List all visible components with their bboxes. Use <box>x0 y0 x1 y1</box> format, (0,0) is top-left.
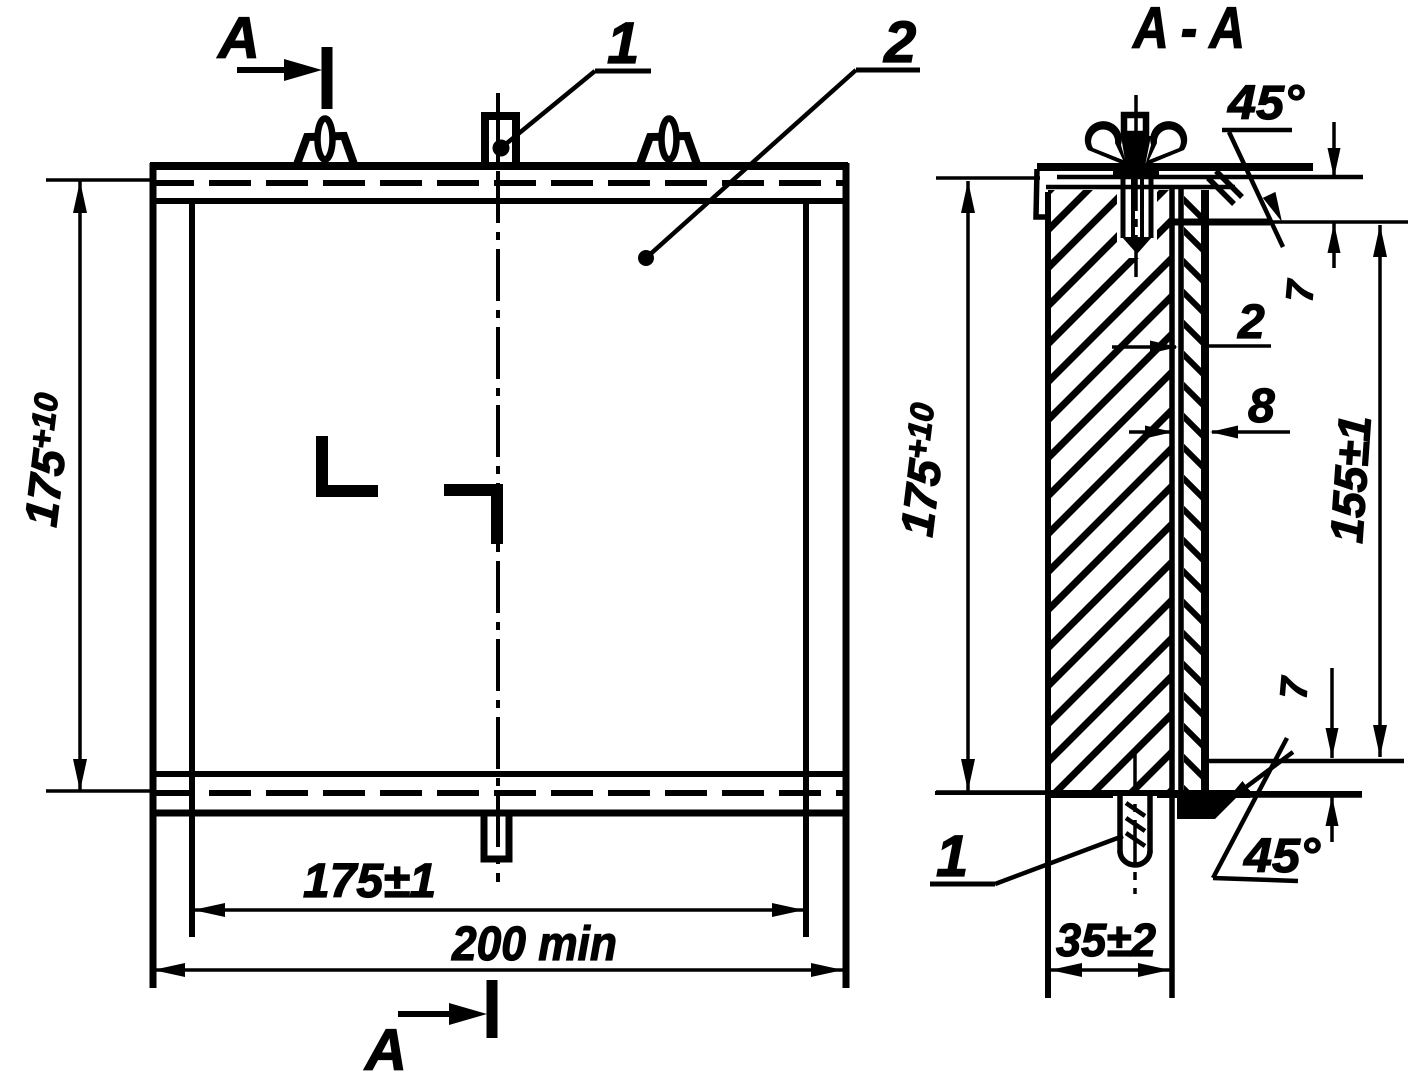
dim 35±2: dimension line with arrows <box>1050 968 1170 972</box>
top rail in section: top face <box>1037 163 1313 171</box>
leader from label 2 to panel <box>646 70 856 258</box>
sheet left edge <box>1178 188 1184 817</box>
washer line under wing nut <box>1113 170 1159 176</box>
dim 175±1: dimension line with arrows <box>193 908 804 912</box>
top rail: second line <box>1057 175 1363 180</box>
top rail: bottom line <box>1046 185 1235 190</box>
svg-text:A: A <box>363 1018 407 1074</box>
clamp bolt (top, section): white halo over hatching <box>1117 190 1157 258</box>
label 1 underline <box>595 69 651 74</box>
svg-text:8: 8 <box>1248 380 1275 433</box>
dim 2: right line <box>1207 344 1271 348</box>
top rail axis (dashed centreline) <box>152 180 846 186</box>
wing nut: right wing <box>1145 121 1187 166</box>
45 deg note (bottom): angle symbol diagonal <box>1213 738 1287 878</box>
svg-text:1: 1 <box>607 11 639 76</box>
wing nut: left wing <box>1085 121 1127 166</box>
dim 7 (bottom): upper part <box>1330 668 1334 758</box>
chamfer face mark (top, double diagonal) <box>1208 178 1234 204</box>
dim 175+10 section: dimension line with arrows <box>966 181 970 791</box>
bolt tip cone <box>1122 237 1152 254</box>
bolt shank edges <box>1121 167 1126 238</box>
masonry wall (45 deg hatching) <box>1030 0 1240 1074</box>
bolt centreline (top) <box>1134 95 1138 277</box>
section plane stroke (top) <box>322 47 333 109</box>
section plane stroke (bottom) <box>487 980 498 1038</box>
svg-text:2: 2 <box>883 10 916 75</box>
svg-text:35±2: 35±2 <box>1056 914 1156 966</box>
weld fill at sheet bottom corner <box>1177 791 1243 819</box>
svg-text:2: 2 <box>1237 296 1265 349</box>
leader from label 1 to bolt <box>501 71 595 148</box>
wall bottom edge / level line <box>935 791 1362 795</box>
bottom level line right of sheet <box>1250 794 1362 798</box>
top rail bottom edge <box>150 198 848 204</box>
asbestos sheet (fine hatched strip) <box>1175 160 1215 851</box>
thread marks <box>1126 803 1145 816</box>
clamp bolt (bottom, section): white halo <box>1113 796 1157 872</box>
vertical centreline (dash-dot) <box>496 93 500 882</box>
frame inner left edge <box>189 201 195 937</box>
svg-text:A - A: A - A <box>1131 0 1245 61</box>
45 deg leader (top) <box>1229 132 1283 247</box>
note underline <box>1222 128 1292 133</box>
rail inner face line (bottom, 155 level) <box>1206 759 1404 764</box>
rounded bottom cap <box>1120 851 1150 865</box>
frame inner right edge <box>803 201 809 937</box>
dim 7 (top): upper part <box>1332 122 1336 178</box>
dim 2: left line with arrow <box>1112 345 1176 349</box>
corner mark left (L shape) <box>322 436 378 491</box>
wall right edge <box>1169 188 1175 998</box>
wing nut: bolt end square <box>1124 115 1146 134</box>
svg-text:1: 1 <box>936 824 968 889</box>
svg-text:45°: 45° <box>1227 77 1305 130</box>
bottom rail bottom edge <box>150 810 848 817</box>
dim 8: left line with arrow <box>1129 430 1171 434</box>
sheet right edge <box>1201 190 1209 812</box>
angle symbol horizontal <box>1213 878 1298 881</box>
dim 175+10 section: extension lines <box>936 176 1040 180</box>
dim 7 (top): lower part <box>1332 223 1336 268</box>
bottom rail axis (dashed centreline) <box>152 790 846 796</box>
label underline <box>930 882 995 887</box>
bottom rail axis extension left <box>46 789 150 793</box>
leader to bottom bolt <box>995 836 1123 884</box>
lifting lug left: eye ring <box>318 119 333 160</box>
corner mark right (mirrored L) <box>444 490 497 544</box>
wing nut: body <box>1121 136 1151 166</box>
clamp bolt (bottom, front view) <box>484 813 509 859</box>
shank edges <box>1117 793 1123 853</box>
dim 155±1: dimension line with arrows <box>1378 225 1382 757</box>
svg-text:45°: 45° <box>1243 830 1321 883</box>
wall left edge <box>1045 192 1051 998</box>
leader dot on panel <box>638 250 654 266</box>
svg-text:155±1: 155±1 <box>1320 414 1381 545</box>
45 deg leader arrow (bottom) <box>1230 752 1293 799</box>
bolt centreline (bottom) <box>1133 752 1137 894</box>
frame outer right edge <box>843 163 850 988</box>
lifting lug right: trapezoid <box>639 136 698 167</box>
lifting lug left: trapezoid <box>296 136 355 167</box>
top rail end lip (left) <box>1036 169 1051 217</box>
clamp bolt 1 (top, front view) <box>485 116 516 166</box>
label 2 underline <box>856 68 920 73</box>
dim 7 (bottom): lower part <box>1330 796 1334 842</box>
section view arrow (bottom) <box>398 1011 462 1017</box>
lifting lug right: eye ring <box>662 119 677 160</box>
svg-text:175±1: 175±1 <box>303 855 436 908</box>
bolt thread lines <box>1131 170 1135 243</box>
panel form frame: top rail top edge <box>150 162 848 170</box>
bottom rail top edge <box>150 771 848 777</box>
leader dot on bolt <box>493 140 510 157</box>
top rail axis extension left <box>46 178 150 182</box>
svg-text:200 min: 200 min <box>451 918 617 971</box>
dim 200 min: dimension line with arrows <box>153 968 843 972</box>
dim 175+10 left: dimension line with arrows <box>78 181 82 791</box>
dim 8: right line with arrow <box>1212 430 1290 434</box>
section view arrow (top) <box>237 67 300 73</box>
svg-text:A: A <box>216 6 260 71</box>
frame outer left edge <box>150 163 157 988</box>
rail inner face line (top, 155 level) <box>1172 219 1270 226</box>
